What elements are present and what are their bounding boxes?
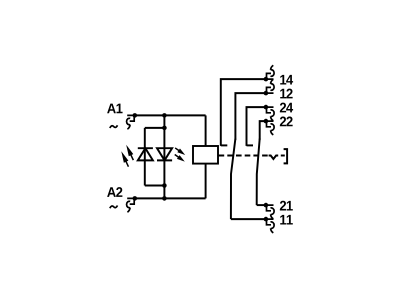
wire to terminal 14 (221, 79, 266, 146)
label 12 (280, 89, 292, 99)
junction dot 11 (264, 217, 269, 222)
terminal clamp 11 (266, 219, 274, 233)
relay coil K1 (193, 146, 218, 164)
junction dot at A2 (133, 196, 138, 201)
LED D2 right (cathode down) (157, 148, 172, 160)
label A2 (107, 187, 122, 197)
wire coil bottom (205, 164, 207, 199)
terminal clamp 22 (266, 121, 274, 135)
junction dot 12 (264, 91, 269, 96)
light arrows of LED D2 (174, 147, 185, 161)
NO fixed contact tick (24) (247, 144, 254, 146)
label 24 (280, 103, 293, 113)
junction dot 21 (264, 203, 269, 208)
light arrows of LED D1 (121, 145, 134, 167)
wire LED branch top (145, 127, 165, 129)
AC symbol (~) at A2 (110, 206, 118, 209)
wire LED branch left vertical (144, 128, 146, 186)
LED D1 left (cathode up) (138, 148, 153, 160)
manual actuator bracket (284, 149, 288, 163)
linkage detent notch (269, 156, 279, 160)
label 14 (280, 75, 293, 85)
node dot branch top (162, 126, 167, 131)
junction dot 24 (264, 105, 269, 110)
contact blade pole 2 (NC 22 to common 21) (257, 139, 260, 206)
junction dot at A1 (133, 113, 138, 118)
contact blade pole 1 (NC 12 to common 11) (231, 139, 236, 220)
terminal clamp A1 (127, 115, 135, 129)
label 21 (280, 201, 293, 211)
node dot branch bottom (162, 183, 167, 188)
wire A2 horizontal (135, 197, 206, 199)
label 22 (280, 117, 293, 127)
junction dot 14 (264, 77, 269, 82)
terminal clamp A2 (127, 198, 135, 212)
wire coil top (205, 115, 207, 146)
NO fixed contact tick (14) (221, 144, 228, 146)
terminal clamp 21 (266, 205, 274, 219)
linkage dashed continuation (281, 155, 285, 157)
wire A1 horizontal (135, 114, 206, 116)
wire to terminal 11 (231, 218, 266, 220)
wire main vertical A1-A2 (163, 115, 165, 198)
junction dot 22 (264, 119, 269, 124)
wire to terminal 21 (257, 204, 266, 206)
wire LED branch bottom (145, 185, 165, 187)
wire to terminal 22 (260, 121, 266, 140)
terminal clamp 14 (266, 65, 274, 79)
label 11 (280, 215, 293, 225)
mechanical linkage dashed line (219, 155, 269, 157)
AC symbol (~) at A1 (110, 125, 118, 128)
terminal clamp 12 (266, 79, 274, 93)
terminal clamp 24 (266, 107, 274, 121)
node dot top (162, 113, 167, 118)
wire to terminal 12 (235, 93, 266, 140)
node dot bottom (162, 196, 167, 201)
wire to terminal 24 (247, 107, 266, 146)
label A1 (107, 104, 122, 114)
